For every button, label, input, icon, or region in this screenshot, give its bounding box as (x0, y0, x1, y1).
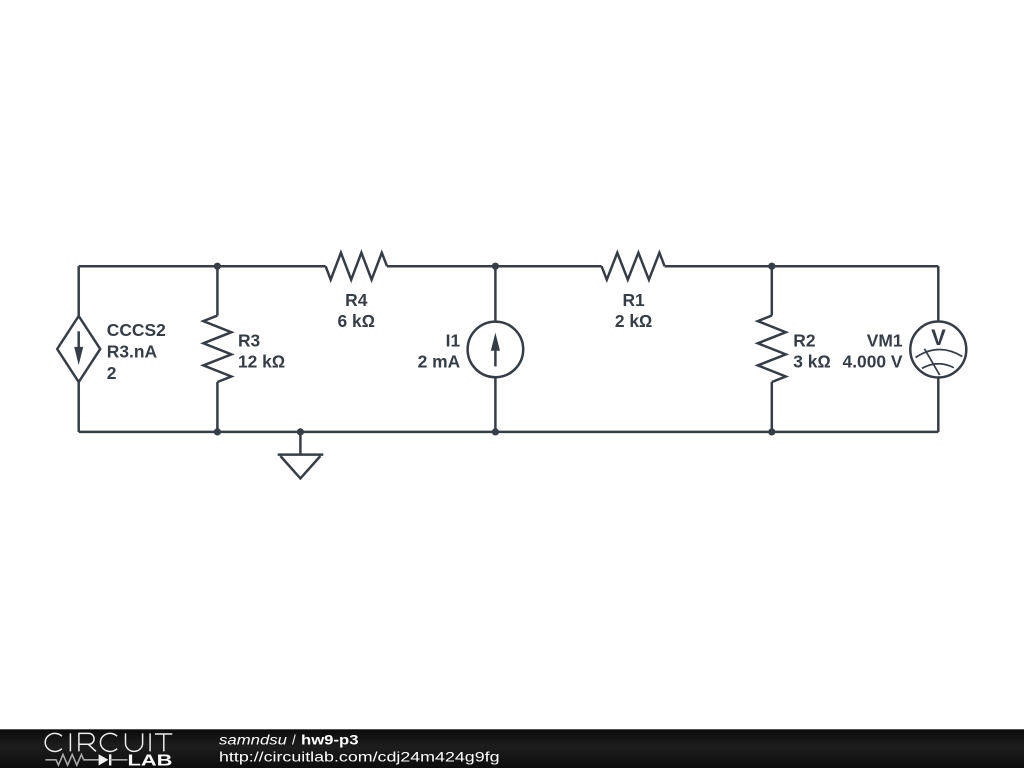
node I1 bottom (492, 428, 499, 435)
label CCCS2 (107, 320, 166, 383)
node R2 bottom (768, 428, 775, 435)
resistor R2 (758, 316, 786, 382)
label I1 value (418, 331, 461, 372)
wire left vertical top stub (77, 266, 80, 316)
current source I1 (468, 322, 524, 378)
label VM1 value (843, 331, 903, 372)
node R2 top (768, 263, 775, 270)
logo resistor (45, 755, 98, 766)
svg-text:2 mA: 2 mA (418, 352, 461, 372)
wire R3 top stub (216, 266, 219, 315)
wire top rail segment R1 to node C (665, 265, 939, 268)
svg-text:http://circuitlab.com/cdj24m42: http://circuitlab.com/cdj24m424g9fg (219, 749, 500, 764)
current source CCCS2 (57, 316, 100, 382)
wire top rail segment node A to R4 (79, 265, 326, 268)
label R4 value (338, 290, 376, 331)
node ground (297, 428, 304, 435)
svg-text:V: V (931, 325, 946, 350)
wire VM1 bottom stub (937, 378, 940, 432)
svg-text:4.000 V: 4.000 V (843, 352, 903, 372)
label R1 value (615, 290, 653, 331)
svg-text:/: / (292, 733, 296, 748)
label R3 value (238, 331, 285, 372)
wire R3 bottom stub (216, 382, 219, 432)
svg-text:VM1: VM1 (867, 331, 903, 351)
resistor R4 (326, 253, 387, 280)
voltmeter VM1 (910, 322, 966, 378)
wire R2 bottom stub (771, 382, 774, 432)
svg-text:2 kΩ: 2 kΩ (615, 311, 653, 331)
wire I1 top stub (494, 266, 497, 321)
svg-text:hw9-p3: hw9-p3 (301, 733, 359, 748)
svg-text:samndsu: samndsu (219, 733, 288, 748)
svg-text:R3: R3 (238, 331, 261, 351)
logo diode (99, 754, 128, 765)
ground (278, 432, 324, 479)
resistor R3 (203, 316, 231, 382)
node R3 bottom (214, 428, 221, 435)
svg-text:R4: R4 (345, 290, 368, 310)
svg-text:CCCS2: CCCS2 (107, 320, 166, 340)
wire left vertical bottom stub (77, 382, 80, 432)
wire VM1 top stub (937, 266, 940, 321)
svg-text:R1: R1 (622, 290, 645, 310)
svg-text:R3.nA: R3.nA (107, 342, 158, 362)
wire bottom rail (79, 431, 939, 434)
node R3 top (214, 263, 221, 270)
svg-text:6 kΩ: 6 kΩ (338, 311, 376, 331)
node I1 top (492, 263, 499, 270)
wire I1 bottom stub (494, 377, 497, 432)
svg-text:2: 2 (107, 363, 117, 383)
footer title samndsu / hw9-p3 (219, 733, 500, 765)
logo CIRCUIT wordmark (45, 733, 172, 751)
label R2 value (793, 331, 831, 372)
svg-text:12 kΩ: 12 kΩ (238, 352, 285, 372)
svg-text:R2: R2 (793, 331, 815, 351)
svg-text:I1: I1 (446, 331, 461, 351)
wire R2 top stub (771, 266, 774, 315)
svg-text:3 kΩ: 3 kΩ (793, 352, 831, 372)
resistor R1 (602, 253, 665, 280)
svg-text:LAB: LAB (128, 752, 173, 768)
wire top rail segment R4 to node B (387, 265, 602, 268)
